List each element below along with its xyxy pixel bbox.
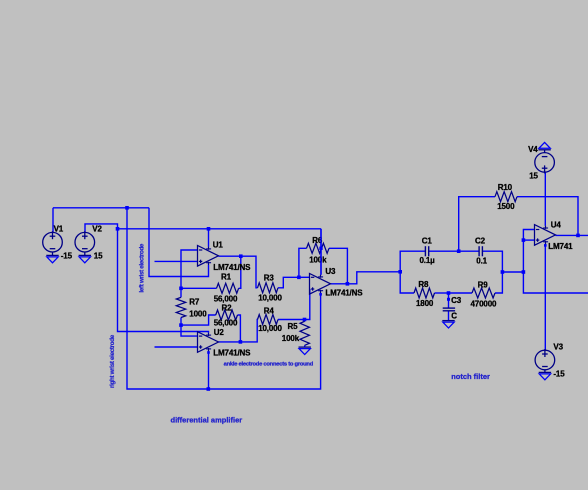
- wire R3 right lead: [278, 277, 299, 288]
- label R7 value: [189, 309, 207, 318]
- op-amp U4: [535, 225, 556, 246]
- wire to U4 inverting input: [523, 230, 534, 273]
- wire -15 branch to U1 V-: [149, 208, 209, 277]
- resistor R7: [176, 297, 185, 317]
- svg-text:R1: R1: [221, 273, 232, 282]
- wire R9 right lead: [495, 272, 502, 293]
- svg-text:0.1: 0.1: [476, 256, 487, 265]
- svg-text:-15: -15: [61, 251, 73, 260]
- label V3 value -15: [553, 370, 565, 379]
- wire U3 V+ from +15 rail: [320, 229, 322, 275]
- svg-text:V2: V2: [92, 225, 102, 234]
- label R7: [189, 297, 200, 306]
- label R4 value: [258, 324, 282, 333]
- svg-text:1800: 1800: [416, 299, 434, 308]
- wire -15 top rail: [53, 207, 149, 209]
- svg-text:-15: -15: [553, 370, 565, 379]
- wire U1 V+ pin: [208, 229, 210, 247]
- wire V4 to U4 V+: [544, 172, 546, 226]
- ground V2: [79, 252, 91, 263]
- wire junction to U3 plus input: [305, 289, 310, 320]
- label C3: [451, 296, 462, 305]
- svg-text:C3: C3: [451, 296, 462, 305]
- svg-text:U4: U4: [551, 221, 562, 230]
- node U2 V- pin end: [207, 351, 210, 354]
- node R7 bottom junction: [179, 323, 183, 327]
- note ankle electrode connects to ground: [224, 361, 314, 367]
- svg-text:C2: C2: [475, 236, 486, 245]
- wire R9 left lead: [449, 292, 473, 294]
- svg-text:1500: 1500: [497, 202, 515, 211]
- wire U3 output: [331, 272, 401, 284]
- label R1: [221, 273, 232, 282]
- label R2 value: [214, 319, 238, 328]
- capacitor C2: [479, 246, 482, 256]
- wire U3 V+ overlay: [320, 229, 322, 275]
- op-amp U1: [198, 246, 219, 267]
- label R4: [264, 307, 275, 316]
- wire notch output to edge: [523, 272, 588, 293]
- label R5 value: [282, 334, 300, 343]
- label U2 LM741/NS: [213, 349, 251, 358]
- label R1 value: [214, 295, 238, 304]
- resistor R8: [414, 288, 435, 298]
- svg-text:left wrist electrode: left wrist electrode: [138, 243, 145, 293]
- node U1 output junction: [239, 254, 243, 258]
- capacitor C3: [443, 308, 455, 311]
- wire C1 right to C2 left: [429, 250, 479, 252]
- wire -15 long branch and bottom rail: [127, 208, 321, 389]
- note differential amplifier: [171, 415, 243, 424]
- wire U2 output to R4: [219, 320, 258, 342]
- voltage source V3: [535, 349, 555, 370]
- resistor R2: [216, 310, 238, 320]
- label U3: [325, 267, 336, 276]
- svg-text:U3: U3: [325, 267, 336, 276]
- svg-text:LM741: LM741: [548, 242, 573, 251]
- svg-text:V3: V3: [553, 343, 563, 352]
- wire C3 bottom lead: [448, 311, 450, 321]
- note left wrist electrode: [138, 243, 145, 293]
- label C2: [475, 236, 486, 245]
- label R10 value: [497, 202, 515, 211]
- svg-text:10,000: 10,000: [258, 293, 282, 302]
- label U3 LM741/NS: [325, 289, 363, 298]
- node U2 V- rail junction: [207, 387, 211, 391]
- svg-text:V4: V4: [528, 145, 538, 154]
- node twin-T input junction: [398, 270, 402, 274]
- label V1 value -15: [61, 251, 73, 260]
- voltage source V4: [535, 153, 555, 174]
- svg-text:R8: R8: [418, 280, 429, 289]
- label V4: [528, 145, 538, 154]
- wire V1 stub: [52, 208, 54, 233]
- svg-text:C1: C1: [422, 236, 433, 245]
- resistor R9: [472, 288, 495, 298]
- label R6: [312, 236, 323, 245]
- label C1 value: [420, 256, 436, 265]
- resistor R6: [307, 243, 330, 253]
- op-amp U2: [198, 332, 219, 353]
- svg-text:V1: V1: [54, 225, 64, 234]
- wire R5 top lead: [304, 320, 306, 322]
- wire U3 inverting input: [299, 276, 310, 278]
- node -15 rail junction: [125, 206, 129, 210]
- wire R8 left lead: [400, 272, 414, 293]
- wire R7 top lead: [180, 288, 182, 297]
- node R6 crossing overlay: [319, 247, 322, 250]
- svg-text:15: 15: [529, 172, 538, 181]
- svg-text:LM741/NS: LM741/NS: [213, 349, 251, 358]
- voltage source V1: [43, 231, 63, 252]
- wire R2 right lead: [238, 315, 241, 342]
- capacitor C1: [425, 246, 428, 256]
- ground V3: [539, 370, 551, 380]
- svg-text:100k: 100k: [282, 334, 300, 343]
- label U1: [213, 240, 224, 249]
- node R7 top junction: [179, 287, 183, 291]
- node C3 lead dot: [447, 298, 450, 301]
- label V3: [553, 343, 563, 352]
- wire U4 plus input: [523, 239, 534, 241]
- resistor R5: [300, 321, 309, 345]
- wire V2 to +15 node: [85, 224, 118, 233]
- wire U1 output to R3: [219, 256, 258, 288]
- label R6 value: [309, 256, 327, 265]
- label R5: [288, 322, 299, 331]
- wire right wrist electrode lead: [155, 346, 198, 348]
- wire U4 output: [556, 234, 588, 236]
- ground V4: [538, 142, 550, 152]
- svg-text:R2: R2: [222, 303, 233, 312]
- label C2 value: [476, 256, 487, 265]
- wire R10 right lead: [517, 197, 578, 236]
- wire C2 right lead: [482, 251, 502, 272]
- node notch output junction: [522, 270, 526, 274]
- svg-text:R3: R3: [264, 273, 275, 282]
- svg-text:10,000: 10,000: [258, 324, 282, 333]
- label V4 value 15: [529, 172, 538, 181]
- wire R2 left lead: [181, 315, 216, 325]
- label C1: [422, 236, 433, 245]
- node U3 output junction: [346, 282, 350, 286]
- wire R4 right lead: [278, 319, 305, 321]
- svg-text:right wrist electrode: right wrist electrode: [109, 334, 116, 388]
- label U4: [551, 221, 562, 230]
- wire left wrist electrode lead: [155, 260, 198, 262]
- wire R6 left lead: [299, 248, 307, 277]
- svg-text:1000: 1000: [189, 309, 207, 318]
- label R3 value: [258, 293, 282, 302]
- svg-text:differential amplifier: differential amplifier: [171, 415, 243, 424]
- label R2: [222, 303, 233, 312]
- resistor R10: [495, 192, 517, 202]
- node U1 V+ tap: [207, 227, 211, 231]
- wire C3 top lead: [448, 293, 450, 308]
- svg-text:R4: R4: [264, 307, 275, 316]
- label V2: [92, 225, 102, 234]
- op-amp U3: [310, 274, 331, 295]
- node U4 plus tap: [522, 238, 526, 242]
- wire C1 left lead: [400, 251, 425, 272]
- wire U2 V- pin to rail: [208, 351, 210, 389]
- wire R6 right lead: [329, 248, 347, 283]
- node R6 crossing: [319, 247, 322, 250]
- node C1 C2 R10 junction: [457, 249, 461, 253]
- resistor R3: [258, 283, 279, 293]
- resistor R1: [217, 283, 239, 293]
- node C2 R9 junction: [501, 270, 505, 274]
- svg-text:R10: R10: [498, 183, 513, 192]
- label U2: [214, 328, 225, 337]
- svg-text:15: 15: [94, 251, 103, 260]
- note right wrist electrode: [109, 334, 116, 388]
- svg-text:R7: R7: [189, 297, 200, 306]
- wire +15 rail: [118, 228, 322, 230]
- node U4 output junction: [576, 234, 580, 238]
- svg-text:notch filter: notch filter: [451, 372, 490, 381]
- label R9 value: [471, 299, 497, 308]
- wire +15 branch to U2 V+: [118, 229, 209, 333]
- wire U1 inverting feedback: [181, 250, 198, 288]
- wire U2 inverting feedback: [181, 325, 198, 336]
- svg-text:0.1µ: 0.1µ: [420, 256, 436, 265]
- label V1: [54, 225, 64, 234]
- svg-text:LM741/NS: LM741/NS: [213, 263, 251, 272]
- node U2 output junction: [239, 340, 243, 344]
- svg-text:U1: U1: [213, 240, 224, 249]
- node C3 junction: [447, 291, 451, 295]
- node U3 inverting junction: [297, 276, 301, 280]
- ground C3: [442, 321, 454, 328]
- wire R5 bottom stub: [304, 345, 306, 347]
- label U1 LM741/NS: [213, 263, 251, 272]
- node +15 V2 junction: [116, 227, 120, 231]
- ground V1: [46, 252, 58, 263]
- svg-text:C: C: [451, 311, 457, 320]
- label R8 value: [416, 299, 434, 308]
- svg-text:U2: U2: [214, 328, 225, 337]
- node U3 V- pin end: [319, 293, 322, 296]
- svg-text:R9: R9: [478, 280, 489, 289]
- wire R8 right lead: [435, 292, 449, 294]
- svg-text:LM741/NS: LM741/NS: [325, 289, 363, 298]
- wire notch node link: [502, 271, 523, 273]
- node U4 V- pin end: [544, 244, 547, 247]
- svg-text:56,000: 56,000: [214, 319, 238, 328]
- note notch filter: [451, 372, 490, 381]
- svg-text:470000: 470000: [471, 299, 497, 308]
- label R3: [264, 273, 275, 282]
- wire R7 bottom lead: [180, 318, 182, 326]
- wire R10 left lead: [459, 197, 495, 252]
- ground R5: [299, 347, 311, 354]
- svg-text:R5: R5: [288, 322, 299, 331]
- resistor R4: [258, 315, 279, 325]
- wire U4 V- to V3: [544, 244, 546, 350]
- label C3 value C: [451, 311, 457, 320]
- label V2 value 15: [94, 251, 103, 260]
- label R9: [478, 280, 489, 289]
- label U4 LM741: [548, 242, 573, 251]
- label R10: [498, 183, 513, 192]
- wire R1 right lead: [239, 256, 241, 288]
- voltage source V2: [75, 231, 95, 252]
- svg-text:ankle electrode connects to gr: ankle electrode connects to ground: [224, 361, 314, 367]
- svg-text:100k: 100k: [309, 256, 327, 265]
- label R8: [418, 280, 429, 289]
- node R4 R5 junction: [303, 318, 307, 322]
- wire R1 left lead: [181, 287, 217, 289]
